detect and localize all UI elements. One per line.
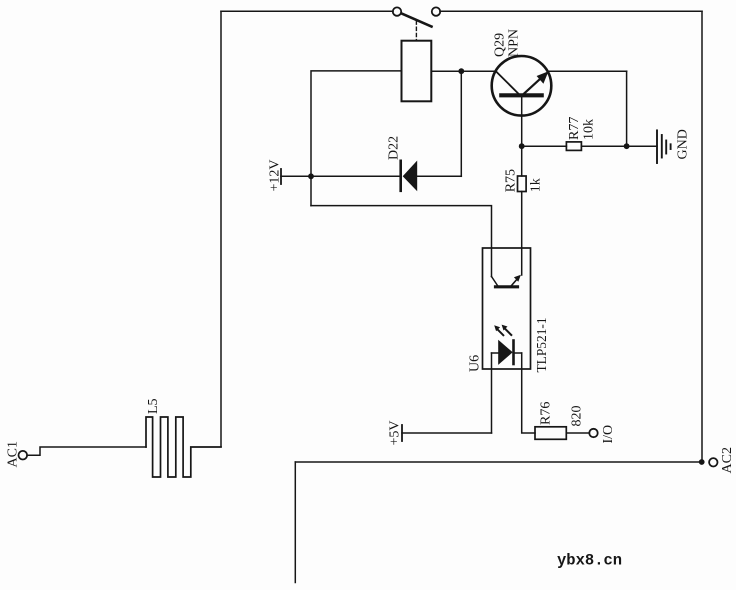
node +12V junction xyxy=(308,173,314,179)
svg-text:R77: R77 xyxy=(567,117,582,140)
wire relay right lead to transistor xyxy=(431,70,496,72)
power +12V bar xyxy=(280,169,282,184)
opto LED light arrow 2 xyxy=(505,329,511,335)
wire to opto collector pin xyxy=(311,206,492,277)
svg-text:L5: L5 xyxy=(146,398,161,414)
svg-text:10k: 10k xyxy=(582,119,597,140)
wire junction to ground symbol xyxy=(627,145,657,147)
svg-text:AC1: AC1 xyxy=(6,441,21,467)
wire +12V to junction xyxy=(281,175,311,177)
wire LED anode pin down to +5V rail xyxy=(491,353,493,433)
diode D22 cathode bar xyxy=(399,161,402,191)
relay K1 dashed actuator link xyxy=(415,21,417,41)
transistor Q29 emitter diagonal xyxy=(524,77,542,93)
resistor R76 xyxy=(535,427,566,440)
transistor Q29 base bar xyxy=(501,93,541,97)
opto phototransistor emitter with arrow xyxy=(512,278,519,286)
switch S1 left contact xyxy=(393,7,401,15)
svg-text:+12V: +12V xyxy=(268,159,283,191)
wire bottom drop xyxy=(294,462,296,583)
inductor L5 meander xyxy=(146,417,221,477)
svg-text:+5V: +5V xyxy=(388,420,403,445)
svg-text:I/O: I/O xyxy=(601,425,616,444)
transistor Q29 base lead inside circle xyxy=(521,95,523,115)
svg-text:TLP521-1: TLP521-1 xyxy=(534,317,549,372)
node emitter/ground junction xyxy=(624,143,630,149)
relay K1 coil box xyxy=(402,41,432,102)
opto phototransistor collector diagonal xyxy=(492,277,498,286)
wire R77 to ground junction xyxy=(581,145,626,147)
wire R76 to I/O port xyxy=(566,432,589,434)
svg-text:1k: 1k xyxy=(529,178,544,192)
wire relay left lead xyxy=(311,71,402,206)
opto LED triangle xyxy=(498,340,513,365)
svg-text:R75: R75 xyxy=(504,169,519,192)
svg-text:NPN: NPN xyxy=(507,29,522,57)
svg-text:D22: D22 xyxy=(387,136,402,160)
ground GND symbol xyxy=(656,130,658,163)
transistor Q29 body circle xyxy=(492,56,552,116)
wire base junction to R77 xyxy=(522,145,567,147)
resistor R75 xyxy=(518,176,527,192)
power +5V bar xyxy=(401,425,403,441)
switch S1 right contact xyxy=(432,7,440,15)
port I/O terminal circle xyxy=(589,429,597,437)
node base junction xyxy=(519,143,525,149)
optocoupler U6 box xyxy=(483,248,531,369)
wire D22 cathode lead xyxy=(311,175,401,177)
svg-text:AC2: AC2 xyxy=(720,447,735,473)
svg-text:GND: GND xyxy=(676,129,691,159)
wire emitter horizontal xyxy=(548,70,627,72)
svg-text:820: 820 xyxy=(570,406,585,427)
node relay/collector junction xyxy=(458,68,464,74)
wire emitter down to junction xyxy=(626,71,628,146)
node AC2 junction xyxy=(699,459,705,465)
resistor R77 xyxy=(566,142,581,151)
switch S1 lever xyxy=(402,14,432,27)
diode D22 triangle xyxy=(403,161,418,192)
opto LED cathode wire xyxy=(514,352,522,354)
opto phototransistor base bar xyxy=(496,285,518,288)
svg-text:R76: R76 xyxy=(539,402,554,425)
wire left rail xyxy=(220,11,222,446)
opto LED light arrow 1 xyxy=(498,330,503,335)
transistor Q29 emitter arrowhead xyxy=(537,71,549,83)
wire top rail left xyxy=(221,10,393,12)
wire +5V to LED anode xyxy=(402,432,492,434)
wire LED cathode pin down to R76 xyxy=(522,353,535,433)
wire opto emitter pin up to R75 xyxy=(521,192,523,276)
wire transistor base down xyxy=(521,97,523,146)
wire R75 top to base junction xyxy=(521,146,523,176)
port AC2 terminal circle xyxy=(709,458,717,466)
wire AC1 stub xyxy=(27,447,146,455)
svg-text:U6: U6 xyxy=(468,355,483,372)
wire right rail xyxy=(701,11,703,462)
wire bottom rail xyxy=(295,461,701,463)
wire top rail right xyxy=(440,10,702,12)
wire D22 anode lead xyxy=(417,175,461,177)
opto LED anode wire xyxy=(492,352,499,354)
port AC1 terminal circle xyxy=(19,451,28,460)
svg-text:Q29: Q29 xyxy=(493,33,508,57)
opto LED cathode bar xyxy=(512,341,515,365)
svg-text:ybx8.cn: ybx8.cn xyxy=(557,552,622,570)
transistor Q29 collector diagonal xyxy=(496,71,519,94)
wire junction down to diode xyxy=(460,71,462,176)
